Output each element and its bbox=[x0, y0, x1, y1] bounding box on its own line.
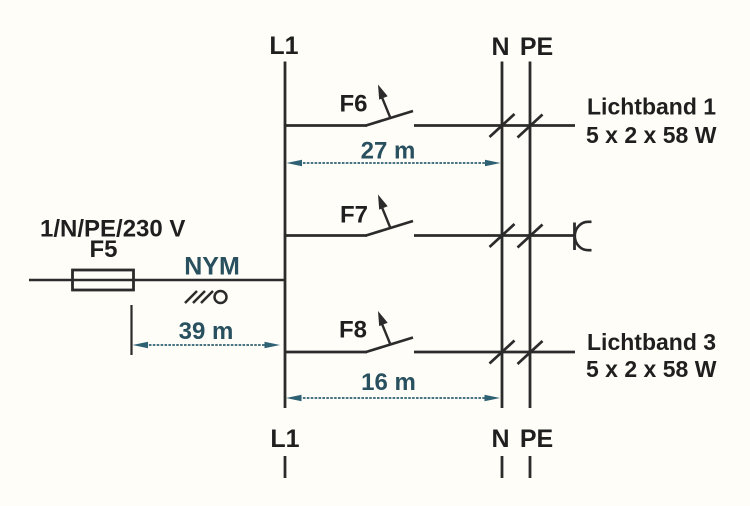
svg-text:5 x 2 x 58 W: 5 x 2 x 58 W bbox=[586, 122, 717, 148]
svg-text:39 m: 39 m bbox=[179, 318, 234, 345]
svg-text:PE: PE bbox=[520, 33, 553, 61]
svg-text:27 m: 27 m bbox=[361, 138, 416, 165]
svg-text:L1: L1 bbox=[270, 425, 299, 453]
svg-text:NYM: NYM bbox=[184, 253, 240, 281]
svg-text:1/N/PE/230 V: 1/N/PE/230 V bbox=[40, 216, 185, 243]
svg-text:L1: L1 bbox=[269, 32, 298, 60]
svg-text:Lichtband 1: Lichtband 1 bbox=[587, 94, 716, 120]
svg-text:16 m: 16 m bbox=[361, 369, 416, 396]
svg-text:N: N bbox=[491, 33, 509, 61]
svg-text:F6: F6 bbox=[339, 91, 367, 118]
svg-text:N: N bbox=[491, 425, 509, 453]
svg-text:F7: F7 bbox=[340, 202, 368, 229]
svg-text:F8: F8 bbox=[339, 317, 367, 344]
svg-text:PE: PE bbox=[520, 425, 553, 453]
svg-text:5 x 2 x 58 W: 5 x 2 x 58 W bbox=[586, 356, 717, 382]
svg-text:Lichtband 3: Lichtband 3 bbox=[587, 329, 716, 355]
